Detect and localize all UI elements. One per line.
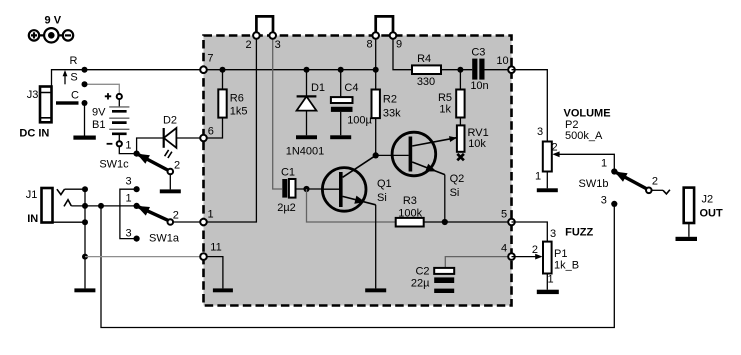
label 1 (battery/SW1c)	[125, 140, 131, 152]
switch SW1a	[134, 203, 174, 242]
label 3 (P1)	[550, 228, 556, 240]
label Q1	[377, 178, 392, 190]
resistor R3	[396, 218, 424, 227]
label C4	[344, 82, 358, 94]
svg-text:J2: J2	[702, 193, 714, 205]
wire SW1c pin2 to ground	[169, 174, 171, 189]
switch SW1c	[134, 151, 174, 193]
label 2 (P1)	[532, 244, 538, 256]
svg-text:2: 2	[174, 159, 180, 171]
svg-text:22µ: 22µ	[411, 277, 430, 289]
label 100u	[347, 114, 372, 126]
PCB pad 3	[269, 32, 276, 39]
svg-text:B1: B1	[92, 119, 105, 131]
label 2 (SW1a)	[173, 210, 179, 222]
svg-text:C4: C4	[344, 82, 358, 94]
svg-text:2: 2	[532, 244, 538, 256]
label R4	[417, 53, 431, 65]
label 33k	[383, 107, 401, 119]
label SW1b	[579, 178, 609, 190]
wire J1 sleeve	[53, 221, 86, 223]
wire J3 C to ground	[84, 103, 86, 136]
svg-text:R2: R2	[383, 93, 397, 105]
trimmer RV1	[457, 118, 465, 161]
svg-text:R3: R3	[403, 195, 417, 207]
svg-text:1N4001: 1N4001	[286, 146, 325, 158]
label 2 (SW1b)	[652, 175, 658, 187]
svg-text:1k_B: 1k_B	[554, 260, 579, 272]
svg-text:Si: Si	[450, 187, 460, 199]
svg-text:R5: R5	[438, 92, 452, 104]
wire R2 to Q2 base junction	[376, 118, 409, 155]
connector J1	[42, 188, 72, 223]
label R5	[438, 92, 452, 104]
transistor Q1	[322, 155, 375, 211]
label P2	[565, 119, 578, 131]
label 4 (pin 4)	[501, 242, 507, 254]
label 330	[417, 76, 435, 88]
svg-text:SW1b: SW1b	[579, 178, 609, 190]
junction Q1 collector / Q2 base	[373, 152, 379, 158]
svg-text:1k5: 1k5	[230, 106, 248, 118]
label 22u	[411, 277, 430, 289]
svg-text:2: 2	[551, 142, 557, 154]
label 1k (R5)	[439, 104, 451, 116]
ground (C4)	[330, 135, 351, 139]
svg-text:3: 3	[550, 228, 556, 240]
svg-text:1: 1	[207, 209, 213, 221]
svg-text:4: 4	[501, 242, 507, 254]
svg-text:100µ: 100µ	[347, 114, 372, 126]
svg-text:8: 8	[366, 39, 372, 51]
svg-text:IN: IN	[27, 213, 38, 225]
wire SW1b pin 2 to J2	[652, 190, 670, 194]
battery B1	[105, 93, 130, 146]
PCB pad 10	[508, 66, 515, 73]
label 2 (SW1c)	[174, 159, 180, 171]
wire pin 11 to internal ground	[204, 257, 223, 289]
wire SW1c pin1 to D2 to pin 6	[137, 138, 204, 154]
PCB pad 6	[200, 135, 207, 142]
svg-text:SW1c: SW1c	[99, 159, 129, 171]
label 7	[207, 52, 213, 64]
svg-text:R6: R6	[230, 92, 244, 104]
label 1 (pin 1)	[207, 209, 213, 221]
label 9V	[92, 107, 106, 119]
wire SW1a pin2 to pin 1 of PCB	[173, 221, 203, 223]
DC polarity symbol	[29, 28, 73, 42]
svg-text:2: 2	[246, 39, 252, 51]
svg-text:P1: P1	[554, 248, 567, 260]
svg-text:C: C	[71, 89, 79, 101]
svg-text:C2: C2	[415, 266, 429, 278]
ground (SW1c)	[160, 189, 181, 193]
label D2	[163, 115, 177, 127]
label VOLUME	[564, 108, 611, 120]
ground (P1)	[537, 290, 559, 294]
svg-text:1: 1	[535, 170, 541, 182]
potentiometer P2	[543, 142, 615, 189]
svg-text:D2: D2	[163, 115, 177, 127]
svg-text:1: 1	[125, 140, 131, 152]
junction dots on 9V rail	[220, 67, 379, 73]
label 2 (pin 2)	[246, 39, 252, 51]
label 1k5	[230, 106, 248, 118]
svg-text:R: R	[70, 55, 78, 67]
svg-text:2: 2	[173, 210, 179, 222]
label 6	[208, 126, 214, 138]
bracket wire SW1c-3 to SW1a-3	[120, 189, 137, 238]
connector J3	[40, 87, 52, 123]
label 10 (pin 10)	[496, 55, 508, 67]
capacitor C3	[472, 59, 511, 80]
label 100k	[398, 208, 422, 220]
label R6	[230, 92, 244, 104]
J3 C contact bar	[56, 101, 79, 104]
label 1k_B	[554, 260, 579, 272]
label C1	[281, 166, 295, 178]
wire J3 S to battery plus (gray)	[85, 84, 120, 94]
svg-text:9: 9	[396, 39, 402, 51]
switch SW1b	[611, 168, 651, 207]
label 10k	[468, 138, 486, 150]
PCB pad 5	[508, 219, 515, 226]
ground (pin 11)	[213, 288, 233, 292]
label 3 (SW1a)	[125, 228, 131, 240]
label R3	[403, 195, 417, 207]
wire C1 junction down to R3 (gray)	[307, 189, 396, 222]
wire J1 ground column	[84, 189, 86, 288]
label 1 (SW1b)	[601, 157, 607, 169]
svg-text:11: 11	[210, 241, 221, 253]
PCB module outline (gray dashed box)	[204, 36, 512, 306]
PCB pad 8	[372, 32, 379, 39]
jack switch arrow (J3 S)	[63, 70, 68, 84]
label S	[70, 71, 77, 83]
svg-text:Q1: Q1	[377, 178, 392, 190]
diode D2 (LED)	[164, 128, 177, 158]
svg-text:D1: D1	[311, 82, 325, 94]
label 1 (P1)	[547, 274, 553, 286]
svg-text:J3: J3	[27, 89, 39, 101]
label 2u2	[277, 202, 296, 214]
svg-text:OUT: OUT	[700, 207, 724, 219]
svg-text:10n: 10n	[470, 80, 488, 92]
svg-text:2: 2	[652, 175, 658, 187]
svg-text:1: 1	[126, 193, 132, 205]
svg-text:VOLUME: VOLUME	[564, 108, 611, 120]
potentiometer P1	[512, 242, 552, 290]
wire pin 1 to pin 2	[204, 36, 257, 223]
J3 pin dots R S C	[82, 67, 88, 106]
label FUZZ	[565, 227, 593, 239]
label 3 (SW1c)	[126, 175, 132, 187]
svg-text:7: 7	[207, 52, 213, 64]
wire Q1 emitter to ground	[375, 205, 377, 289]
label D1	[311, 82, 325, 94]
svg-text:3: 3	[275, 39, 281, 51]
svg-text:FUZZ: FUZZ	[565, 227, 593, 239]
ground (D1)	[296, 135, 317, 139]
ground (J2)	[676, 237, 698, 241]
label DC IN	[19, 128, 49, 140]
label 3 (P2)	[537, 126, 543, 138]
label SW1c	[99, 159, 129, 171]
label 8 (pin 8)	[366, 39, 372, 51]
ground (J3 C)	[73, 136, 95, 140]
svg-text:1k: 1k	[439, 104, 451, 116]
svg-text:10k: 10k	[468, 138, 486, 150]
wire pin 10 to P2	[512, 70, 548, 142]
svg-text:2µ2: 2µ2	[277, 202, 296, 214]
capacitor C4	[331, 70, 353, 136]
label Si (Q2)	[450, 187, 460, 199]
label 2 (P2)	[551, 142, 557, 154]
resistor R5	[456, 70, 464, 118]
wire battery minus to SW1c pin 1	[119, 147, 136, 154]
label 1N4001	[286, 146, 325, 158]
wire pin 11 to J1 ground (gray)	[85, 256, 204, 258]
ground (Q1)	[365, 288, 386, 292]
label 9 (pin 9)	[396, 39, 402, 51]
capacitor C2 with wire from pin 4 (gray)	[434, 257, 511, 283]
svg-text:J1: J1	[26, 189, 38, 201]
svg-text:C3: C3	[471, 46, 485, 58]
capacitor C1	[282, 179, 322, 198]
wire pin 9 to R4	[393, 36, 412, 70]
PCB pad 1	[200, 219, 207, 226]
ground (P2)	[537, 188, 558, 192]
svg-text:R4: R4	[417, 53, 431, 65]
ground (J1)	[74, 288, 95, 292]
jumper link pins 2-3	[256, 16, 273, 35]
svg-text:9 V: 9 V	[45, 15, 62, 27]
wire Q2 emitter to R3 junction	[444, 175, 446, 222]
wire pin 3 to C1 (gray)	[273, 36, 282, 190]
label R	[70, 55, 78, 67]
wire J3 R contact to pin 7	[52, 70, 204, 87]
label IN	[27, 213, 38, 225]
label J3	[27, 89, 39, 101]
svg-text:3: 3	[125, 228, 131, 240]
connector J2	[684, 188, 694, 237]
svg-text:3: 3	[126, 175, 132, 187]
PCB pad 11	[200, 253, 207, 260]
svg-text:500k_A: 500k_A	[565, 130, 603, 142]
junction dots J1 column	[82, 186, 104, 259]
wire R4 to C3	[441, 69, 472, 71]
diode D1	[297, 70, 317, 136]
wire 9V rail inside PCB	[204, 69, 376, 71]
wire pin 5 to P1	[512, 222, 548, 242]
svg-text:3: 3	[537, 126, 543, 138]
label 5 (pin 5)	[501, 209, 507, 221]
svg-text:6: 6	[208, 126, 214, 138]
label 500k_A	[565, 130, 603, 142]
jumper link pins 8-9	[376, 16, 393, 35]
svg-text:100k: 100k	[398, 208, 422, 220]
svg-text:9V: 9V	[92, 107, 106, 119]
junction R5 tap	[457, 67, 463, 73]
PCB pad 4	[508, 253, 515, 260]
svg-text:10: 10	[496, 55, 508, 67]
PCB pad 7	[200, 66, 207, 73]
svg-text:1: 1	[601, 157, 607, 169]
resistor R4	[412, 65, 441, 74]
label RV1	[468, 127, 489, 139]
junction R3 / pin 5	[442, 219, 448, 225]
label P1	[554, 248, 567, 260]
svg-text:C1: C1	[281, 166, 295, 178]
label 1 (SW1a)	[126, 193, 132, 205]
transistor Q2	[392, 132, 457, 176]
svg-text:Si: Si	[377, 192, 387, 204]
svg-text:330: 330	[417, 76, 435, 88]
svg-text:DC IN: DC IN	[19, 128, 49, 140]
svg-text:S: S	[70, 71, 77, 83]
label OUT	[700, 207, 724, 219]
PCB pad 9	[390, 32, 397, 39]
label 3 (SW1b)	[601, 195, 607, 207]
svg-text:5: 5	[501, 209, 507, 221]
wire R3 to pin 5	[424, 221, 512, 223]
wire bypass J1 to SW1b pin 3	[101, 204, 614, 328]
label C	[71, 89, 79, 101]
label Si (Q1)	[377, 192, 387, 204]
svg-text:33k: 33k	[383, 107, 401, 119]
label 3 (pin 3)	[275, 39, 281, 51]
resistor R2	[372, 90, 380, 119]
resistor R6	[204, 70, 227, 138]
wire J1 ring contact to SW1a pin 1	[71, 205, 136, 207]
junction C1 / Q1 base	[303, 186, 309, 192]
PCB pad 2	[253, 32, 260, 39]
svg-text:SW1a: SW1a	[149, 233, 180, 245]
svg-text:Q2: Q2	[450, 173, 465, 185]
label 11	[210, 241, 221, 253]
wire J1 tip contact	[65, 188, 86, 190]
label Q2	[450, 173, 465, 185]
label C3	[471, 46, 485, 58]
label SW1a	[149, 233, 180, 245]
label J2	[702, 193, 714, 205]
9 V supply label	[45, 15, 62, 27]
label 1 (P2)	[535, 170, 541, 182]
svg-text:1: 1	[547, 274, 553, 286]
wire pin 8 down to R2	[375, 36, 377, 90]
svg-text:3: 3	[601, 195, 607, 207]
ground (C2)	[434, 289, 454, 293]
label 10n	[470, 80, 488, 92]
label B1	[92, 119, 105, 131]
label J1	[26, 189, 38, 201]
label C2	[415, 266, 429, 278]
label R2	[383, 93, 397, 105]
